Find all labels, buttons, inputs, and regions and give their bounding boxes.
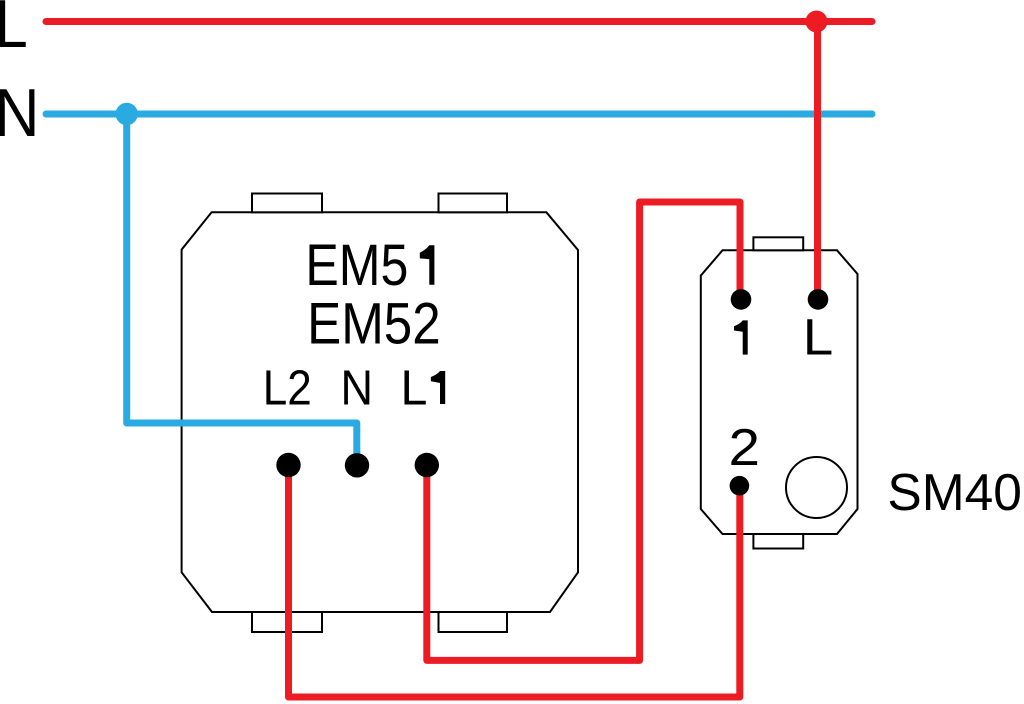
svg-text:EM5: EM5 xyxy=(305,233,408,298)
svg-text:2: 2 xyxy=(729,419,761,477)
svg-text:EM52: EM52 xyxy=(307,292,441,357)
svg-text:L: L xyxy=(401,361,428,415)
svg-text:L: L xyxy=(803,309,834,366)
svg-text:SM40: SM40 xyxy=(887,463,1022,521)
svg-text:N: N xyxy=(340,361,373,415)
svg-text:N: N xyxy=(0,75,40,151)
svg-text:L2: L2 xyxy=(263,361,312,415)
svg-text:L: L xyxy=(0,0,28,62)
